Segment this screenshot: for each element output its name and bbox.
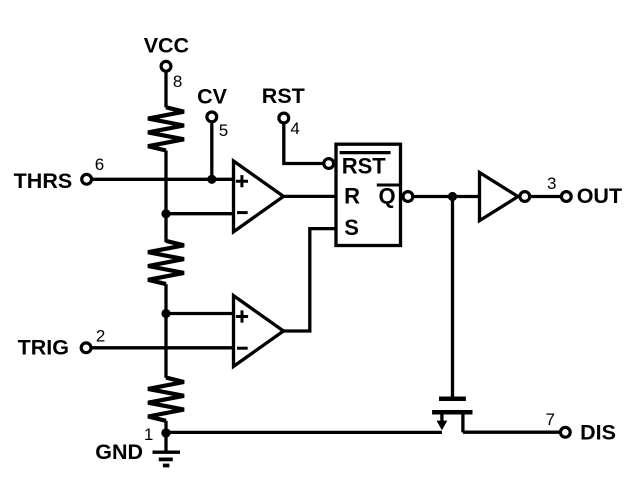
transistor Q1 gate bar — [439, 397, 466, 401]
wire THRS to comparator U1 + input — [92, 178, 234, 181]
THRS terminal (pin 6) — [82, 174, 92, 184]
svg-text:6: 6 — [95, 155, 104, 174]
VCC terminal (pin 8) — [161, 61, 171, 71]
RST terminal (pin 4) — [279, 113, 289, 123]
U3 Q label overline — [377, 183, 400, 186]
wire transistor drain to DIS — [463, 431, 560, 434]
junction CV/THRS — [207, 175, 216, 184]
OUT terminal (pin 3) — [561, 192, 571, 202]
buffer U4 — [480, 173, 519, 221]
ground symbol — [164, 433, 167, 452]
wire R3 bottom to ground node — [164, 421, 167, 433]
resistor R2 — [148, 241, 184, 284]
wire Q node to transistor gate — [451, 197, 454, 397]
svg-text:VCC: VCC — [144, 34, 189, 58]
CV terminal (pin 5) — [207, 112, 217, 122]
junction Q node — [448, 192, 457, 201]
svg-text:RST: RST — [262, 84, 305, 108]
junction node A — [161, 209, 170, 218]
svg-text:3: 3 — [547, 174, 556, 193]
wire RST pin to flip-flop — [284, 123, 324, 163]
svg-text:1: 1 — [144, 425, 153, 444]
svg-text:CV: CV — [197, 84, 228, 108]
svg-text:Q: Q — [379, 184, 396, 209]
comparator U1 — [234, 161, 284, 232]
wire buffer to OUT — [531, 195, 561, 198]
wire R2 bottom to node B — [164, 284, 167, 378]
svg-text:2: 2 — [96, 326, 105, 345]
transistor Q1 source arrow — [440, 415, 443, 423]
junction node B — [161, 309, 170, 318]
wire TRIG to comparator U2 - input — [91, 346, 233, 349]
DIS terminal (pin 7) — [560, 427, 570, 437]
svg-text:OUT: OUT — [577, 184, 622, 208]
U2 minus sign — [237, 347, 248, 350]
wire Q output to buffer — [413, 195, 480, 198]
TRIG terminal (pin 2) — [81, 343, 91, 353]
svg-text:S: S — [344, 215, 359, 240]
svg-text:4: 4 — [290, 119, 299, 138]
transistor Q1 drain lead — [461, 415, 464, 433]
wire U2 output to S input — [283, 229, 336, 331]
U3 Q output bubble — [403, 192, 413, 202]
U3 RST label overline — [340, 151, 391, 154]
svg-text:8: 8 — [173, 72, 182, 91]
transistor Q1 channel bar — [432, 410, 472, 415]
U1 minus sign — [237, 211, 248, 214]
wire U1 output to R input — [283, 195, 336, 198]
svg-text:RST: RST — [342, 153, 387, 178]
svg-text:THRS: THRS — [14, 169, 73, 193]
node B wire to comparator U2 + input — [166, 312, 234, 315]
svg-text:GND: GND — [95, 440, 143, 464]
wire R1 bottom to node A — [164, 151, 167, 243]
node A wire to comparator U1 - input — [166, 212, 234, 215]
resistor R1 — [148, 107, 184, 150]
wire VCC stub — [164, 72, 167, 108]
comparator U2 — [234, 296, 284, 367]
svg-text:7: 7 — [546, 410, 555, 429]
U2 plus sign — [236, 310, 248, 322]
flip-flop U3 box — [336, 144, 401, 245]
U1 plus sign — [236, 175, 248, 187]
U4 output bubble — [520, 192, 530, 202]
wire ground rail to transistor source — [166, 431, 442, 434]
wire CV to THRS line — [210, 122, 213, 179]
svg-text:5: 5 — [219, 121, 228, 140]
junction GND node — [161, 428, 170, 437]
svg-text:R: R — [344, 184, 360, 209]
U3 RST input bubble — [324, 159, 334, 169]
svg-text:TRIG: TRIG — [18, 335, 69, 359]
svg-text:DIS: DIS — [580, 421, 616, 445]
resistor R3 — [148, 378, 184, 421]
